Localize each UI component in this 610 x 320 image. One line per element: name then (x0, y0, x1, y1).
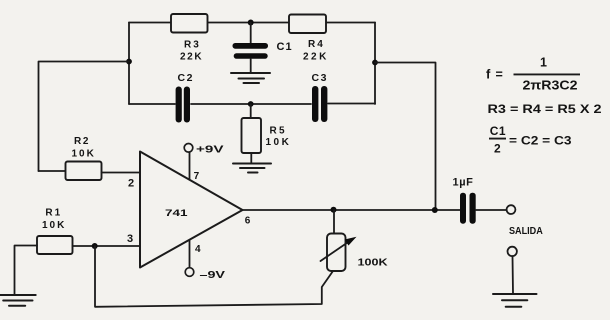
svg-text:R5: R5 (270, 126, 287, 137)
formula f = 1/(2piR3C2) (486, 56, 580, 93)
wire R1 to ground (15, 246, 38, 295)
wire cap to output terminal (476, 209, 506, 211)
wire pin 3 (73, 245, 141, 247)
svg-text:R1: R1 (45, 208, 62, 219)
terminal ground side (508, 247, 517, 256)
svg-text:–9V: –9V (200, 269, 226, 281)
svg-text:f: f (486, 67, 491, 82)
resistor R1 (37, 208, 73, 254)
svg-text:1µF: 1µF (453, 176, 474, 188)
ground output (493, 294, 537, 307)
wire pin 2 (102, 172, 141, 174)
svg-text:C1: C1 (490, 124, 506, 138)
svg-text:R4: R4 (308, 39, 325, 50)
node twin-T input junction (126, 59, 132, 65)
svg-text:3: 3 (127, 233, 133, 245)
svg-text:C1: C1 (277, 41, 293, 53)
terminal +9V (184, 144, 193, 153)
svg-text:SALIDA: SALIDA (509, 226, 543, 237)
node C-row center junction (248, 101, 254, 107)
svg-text:= C2 = C3: = C2 = C3 (509, 134, 572, 148)
wire C-row horizontal (129, 103, 375, 106)
node pin 3 junction (92, 243, 98, 249)
node feedback junction (372, 60, 378, 66)
ground input (0, 295, 36, 306)
pin 4 lead (189, 240, 191, 268)
svg-text:6: 6 (245, 216, 251, 227)
wire output (243, 209, 461, 211)
svg-text:=: = (496, 67, 503, 81)
node output-feedback junction (432, 207, 438, 213)
svg-text:C3: C3 (312, 72, 329, 84)
wire right twin-T vertical (374, 23, 376, 105)
svg-text:10K: 10K (72, 149, 96, 160)
terminal -9V (185, 268, 194, 277)
node output-pot junction (331, 207, 337, 213)
svg-text:4: 4 (195, 244, 201, 255)
svg-text:R2: R2 (74, 136, 90, 147)
svg-text:+9V: +9V (196, 144, 224, 156)
wire pot to feedback bottom (95, 246, 333, 307)
op-amp U1 741 (140, 152, 243, 268)
ground C1 (231, 73, 270, 83)
wire top rail (129, 22, 375, 24)
svg-text:R3 = R4 = R5 X 2: R3 = R4 = R5 X 2 (488, 102, 602, 116)
node top junction (248, 20, 254, 26)
resistor R5 (242, 104, 292, 163)
capacitor 1uF (453, 176, 476, 223)
svg-text:22K: 22K (303, 52, 329, 63)
svg-text:100K: 100K (358, 258, 389, 269)
wire terminal to ground (512, 256, 515, 293)
capacitor C2 (176, 72, 195, 123)
svg-text:2: 2 (494, 142, 501, 156)
wire input branch to R2 (39, 62, 130, 172)
resistor R3 (171, 14, 208, 62)
svg-text:1: 1 (540, 56, 547, 70)
potentiometer 100K (321, 210, 389, 271)
svg-text:C2: C2 (178, 72, 195, 84)
wire feedback branch to output rail (375, 63, 436, 211)
capacitor C3 (312, 72, 329, 122)
wire left twin-T vertical (128, 23, 130, 105)
resistor R4 (289, 15, 329, 63)
svg-text:2: 2 (128, 178, 134, 190)
pin 7 lead (189, 153, 191, 180)
svg-text:10K: 10K (42, 220, 66, 231)
capacitor C1 (233, 23, 293, 73)
svg-text:10K: 10K (266, 137, 292, 148)
ground R5 (233, 164, 271, 173)
svg-text:2πR3C2: 2πR3C2 (523, 79, 578, 93)
terminal SALIDA (507, 205, 516, 214)
svg-text:R3: R3 (184, 40, 201, 51)
svg-text:22K: 22K (180, 51, 203, 62)
svg-text:741: 741 (165, 208, 188, 219)
resistor R2 (39, 136, 102, 180)
formula C1/2 = C2 = C3 (489, 124, 572, 156)
svg-text:7: 7 (194, 171, 200, 182)
